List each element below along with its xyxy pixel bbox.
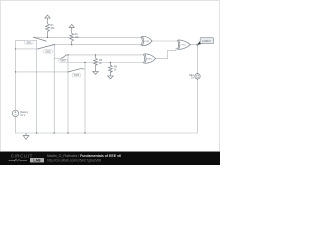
svg-text:http://circuitlab.com/c/5efc7g: http://circuitlab.com/c/5efc7g6a2v96 bbox=[47, 159, 101, 163]
svg-text:10 V: 10 V bbox=[20, 114, 25, 117]
svg-text:SW4: SW4 bbox=[74, 74, 80, 77]
svg-text:SW1: SW1 bbox=[26, 41, 32, 44]
svg-text:LAB: LAB bbox=[33, 159, 41, 163]
svg-text:Martin_O_Flatharta / Fundament: Martin_O_Flatharta / Fundamentals of EEE… bbox=[47, 154, 121, 158]
svg-text:SW2: SW2 bbox=[45, 50, 51, 53]
svg-text:SW3: SW3 bbox=[60, 60, 66, 63]
svg-text:XOR2: XOR2 bbox=[146, 58, 153, 60]
svg-text:XOR1: XOR1 bbox=[144, 41, 151, 43]
svg-text:CIRCUIT: CIRCUIT bbox=[11, 154, 33, 159]
svg-text:1.010 V: 1.010 V bbox=[202, 40, 211, 43]
